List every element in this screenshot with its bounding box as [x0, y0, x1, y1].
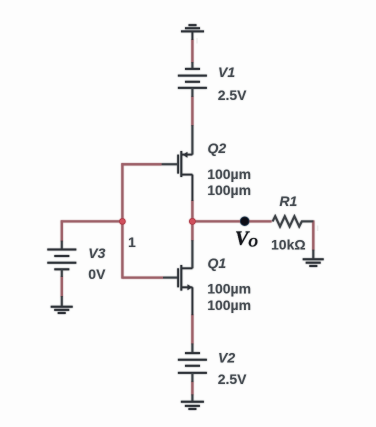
resistor R1: [273, 216, 314, 226]
ground (left): [51, 307, 73, 313]
battery V3: [47, 250, 76, 270]
wire Q2 source to center node: [191, 200, 193, 222]
svg-text:100µm: 100µm: [207, 166, 251, 182]
svg-text:100µm: 100µm: [207, 182, 251, 198]
node junction (center): [189, 218, 195, 224]
wire node 1 to V3: [61, 220, 124, 222]
transistor Q1: [178, 265, 192, 315]
svg-text:Q1: Q1: [208, 255, 227, 271]
wire V3 bottom to left ground: [61, 276, 63, 297]
wire left ground stub: [61, 296, 63, 307]
transistor Q2: [178, 151, 192, 201]
wire R1 to right ground: [312, 220, 314, 250]
svg-text:V1: V1: [218, 64, 235, 80]
wire Q2 gate black segment: [162, 163, 179, 165]
svg-text:V2: V2: [218, 350, 235, 366]
wire right ground stub: [312, 250, 314, 260]
wire V1 to Q2 drain: [191, 96, 193, 126]
ground (top, inverted): [181, 25, 204, 40]
wire Q2 gate red segment: [121, 163, 161, 165]
wire Q1 gate red segment: [122, 276, 163, 278]
svg-text:R1: R1: [279, 193, 297, 209]
wire node 1 vertical (gate bus): [121, 163, 123, 278]
wire V2 to bottom ground: [191, 381, 193, 395]
wire V3 bottom stub: [61, 269, 63, 277]
svg-text:2.5V: 2.5V: [218, 371, 247, 387]
node 1 junction dot: [120, 219, 126, 225]
battery V2: [178, 353, 207, 373]
ground (right): [303, 259, 324, 266]
svg-text:10kΩ: 10kΩ: [271, 237, 306, 253]
svg-text:Q2: Q2: [208, 140, 227, 156]
svg-text:0V: 0V: [88, 266, 106, 282]
wire Q2 drain lead: [191, 125, 193, 155]
wire top ground to V1: [191, 39, 193, 63]
wire V1 top stub: [191, 62, 193, 69]
wire V1 bottom stub: [191, 88, 193, 97]
wire center node to resistor: [191, 220, 271, 222]
svg-text:1: 1: [128, 234, 136, 250]
wire Q1 drain lead: [191, 240, 193, 268]
svg-text:100µm: 100µm: [207, 281, 251, 297]
wire V2 top stub: [191, 343, 193, 353]
battery V1: [178, 69, 207, 88]
ghost artifact near top wire: [196, 38, 197, 44]
svg-text:2.5V: 2.5V: [218, 87, 247, 103]
wire bottom ground stub: [191, 394, 193, 402]
wire center node to Q1 drain: [191, 220, 193, 241]
wire V2 bottom stub: [191, 373, 193, 382]
ghost artifact near right corner: [317, 226, 319, 232]
svg-text:V3: V3: [88, 245, 105, 261]
wire V3 top lead: [61, 220, 63, 241]
wire V3 top stub: [61, 241, 63, 250]
ground (bottom): [181, 402, 204, 409]
svg-text:100µm: 100µm: [207, 297, 251, 313]
wire Q1 gate black segment: [163, 277, 178, 279]
node Vo probe dot: [240, 217, 249, 226]
wire Q1 source to V2: [191, 314, 193, 344]
